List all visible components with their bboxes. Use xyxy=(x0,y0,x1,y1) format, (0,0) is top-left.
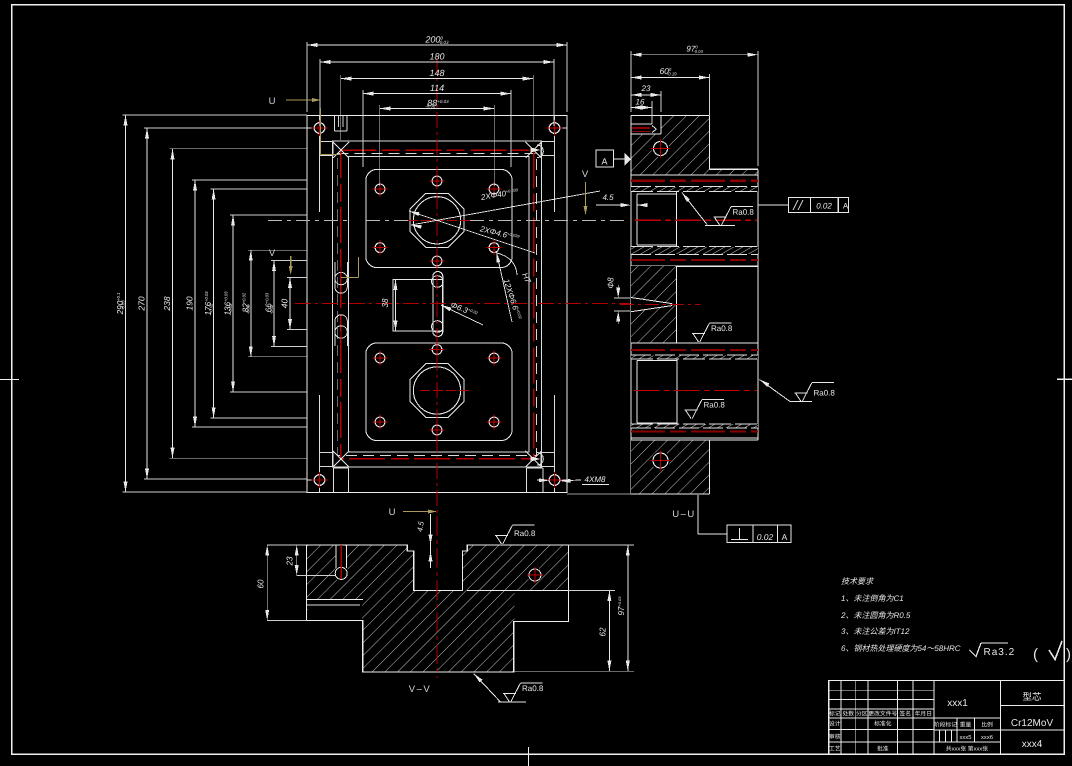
bolt hole 1 xyxy=(375,184,385,194)
svg-text:1、未注倒角为C1: 1、未注倒角为C1 xyxy=(841,594,904,603)
svg-text:标记: 标记 xyxy=(829,709,841,717)
groove corner X top-left xyxy=(333,142,349,158)
svg-text:114: 114 xyxy=(430,83,444,93)
svg-text:A: A xyxy=(843,201,849,210)
perpendicularity tolerance frame xyxy=(697,495,699,534)
svg-text:Ra0.8: Ra0.8 xyxy=(522,684,544,693)
svg-text:重量: 重量 xyxy=(960,720,972,728)
corner boss BR xyxy=(541,453,555,467)
bolt hole 8 xyxy=(489,353,499,363)
left slot upper xyxy=(334,262,336,287)
V-V dim 62 xyxy=(608,591,610,672)
svg-text:U: U xyxy=(269,96,276,107)
cavity 1 red centerline xyxy=(635,219,757,221)
svg-text:V: V xyxy=(269,248,276,259)
svg-text:处数: 处数 xyxy=(842,709,854,717)
top block vertical hole circle xyxy=(652,140,670,158)
section U-U top block hatch xyxy=(631,116,758,176)
V-V right hole circle xyxy=(527,568,542,583)
main view groove inner rect xyxy=(349,157,530,453)
main view plate outline xyxy=(307,116,567,493)
section V-V hatch xyxy=(307,545,569,672)
cavity 1 Ra0.8 leader xyxy=(682,193,690,203)
svg-text:0.02: 0.02 xyxy=(757,532,774,542)
bolt hole 2 xyxy=(489,184,499,194)
groove corner X bottom-right xyxy=(526,451,542,467)
dimension 270 left xyxy=(146,128,148,479)
svg-text:xxx4: xxx4 xyxy=(1022,739,1043,750)
lower octagonal hole xyxy=(410,364,464,418)
section dim 60 xyxy=(631,77,710,79)
cavity 1 outline xyxy=(637,193,676,195)
mid block sprue funnel xyxy=(631,298,672,312)
svg-text:阶段标记: 阶段标记 xyxy=(934,720,957,728)
dimension 38 center square xyxy=(395,280,397,331)
svg-text:238: 238 xyxy=(162,296,172,311)
main view corner column right xyxy=(554,116,556,213)
svg-text:23: 23 xyxy=(641,84,651,93)
right face Ra0.8 leader xyxy=(760,380,770,387)
svg-text:(: ( xyxy=(1033,646,1038,663)
svg-text:技术要求: 技术要求 xyxy=(841,577,874,586)
groove corner X bottom-left xyxy=(333,451,349,467)
svg-text:0.02: 0.02 xyxy=(816,201,832,210)
V-V dim 97 xyxy=(627,545,629,671)
dimension 238 left xyxy=(172,149,174,458)
capsule hole lower xyxy=(432,321,444,333)
svg-text:V–V: V–V xyxy=(409,684,431,695)
svg-text:更改文件号: 更改文件号 xyxy=(868,709,897,717)
svg-text:4.5: 4.5 xyxy=(602,193,614,202)
V-V sprue hole xyxy=(336,546,347,572)
svg-text:U–U: U–U xyxy=(672,509,696,520)
mid block hatch xyxy=(631,266,676,343)
svg-text:38: 38 xyxy=(381,298,390,307)
leader 2X Phi4.6 xyxy=(409,211,535,253)
red band right end hook top xyxy=(537,145,543,158)
top-left notch M8 hole xyxy=(632,116,661,134)
corner hole M8 bottom-left xyxy=(314,475,325,486)
svg-text:A: A xyxy=(782,532,788,542)
upper octagon gray dashed line to section xyxy=(470,219,628,221)
dimension 82 left xyxy=(250,250,252,357)
svg-text:年月日: 年月日 xyxy=(915,709,932,717)
bolt hole 12 xyxy=(432,425,442,435)
dimension 200 top xyxy=(307,44,567,46)
svg-text:A: A xyxy=(601,156,607,166)
dimension 290 left xyxy=(125,115,127,492)
svg-text:190: 190 xyxy=(185,296,195,310)
red band corner arrow BR xyxy=(531,456,541,461)
corner hole M8 bottom-right xyxy=(549,475,560,486)
V-V dim 23 xyxy=(296,545,298,575)
svg-text:Ra0.8: Ra0.8 xyxy=(732,208,754,217)
band A lines xyxy=(631,174,758,176)
upper pocket rounded rectangle xyxy=(366,170,512,268)
groove corner X top-right xyxy=(526,142,542,158)
svg-text:Ra3.2: Ra3.2 xyxy=(983,647,1015,658)
red band right end hook bottom xyxy=(537,453,543,466)
V-V Ra0.8 top xyxy=(495,536,508,545)
svg-text:分区: 分区 xyxy=(856,709,868,717)
title block grid xyxy=(829,681,1064,755)
bottom centering tick xyxy=(528,747,530,766)
section V-V inner lines xyxy=(307,598,363,600)
main horizontal red centerline xyxy=(295,303,631,305)
red band corner arrow TR xyxy=(531,147,541,152)
global Ra3.2 symbol xyxy=(970,643,982,657)
svg-text:U: U xyxy=(389,507,396,518)
lower octagon red centerline xyxy=(420,390,472,392)
dimension 114 top xyxy=(363,93,511,95)
corner boss TL xyxy=(320,142,334,156)
main view groove outer rect xyxy=(333,141,542,467)
svg-text:16: 16 xyxy=(636,97,645,106)
parallelism tolerance frame xyxy=(789,198,849,213)
svg-text:审核: 审核 xyxy=(829,732,841,740)
band D lines xyxy=(631,427,758,429)
section V-V outline xyxy=(307,545,569,672)
svg-text:62: 62 xyxy=(599,627,608,636)
capsule hole upper xyxy=(432,276,444,288)
upper octagonal hole xyxy=(410,193,464,247)
bolt hole 6 xyxy=(432,256,442,266)
mid block red centerline xyxy=(620,304,700,306)
band C Ra0.8 symbol xyxy=(692,334,705,343)
cavity 2 red centerline xyxy=(634,390,757,392)
cavity 2 outline xyxy=(637,360,677,362)
bolt hole 7 xyxy=(375,353,385,363)
bolt hole 11 xyxy=(489,417,499,427)
section V-V void left xyxy=(308,600,363,620)
svg-text:2、未注圆角为R0.5: 2、未注圆角为R0.5 xyxy=(840,611,911,620)
ext line main-to-section bottom xyxy=(567,493,631,495)
svg-text:60: 60 xyxy=(257,579,266,588)
center capsule slot xyxy=(433,272,443,337)
section V-V void right xyxy=(515,591,569,621)
band C dense strip xyxy=(631,355,758,359)
svg-text:3、未注公差为IT12: 3、未注公差为IT12 xyxy=(841,627,910,636)
section dim 23 xyxy=(631,94,661,96)
main view red seal groove band xyxy=(341,150,534,459)
svg-text:设计: 设计 xyxy=(829,719,841,727)
V-V Ra0.8 bottom leader xyxy=(474,674,483,683)
svg-text:xxx6: xxx6 xyxy=(981,735,993,741)
cavity 2 Ra0.8 symbol xyxy=(685,410,698,419)
bottom block hatch xyxy=(631,440,710,494)
section cut line V-V dash xyxy=(268,219,352,221)
mid block outline xyxy=(675,266,677,343)
section dim 16 xyxy=(631,107,652,109)
leader 2X Phi40 xyxy=(411,191,600,225)
svg-text:V: V xyxy=(582,169,589,180)
bolt hole 9 xyxy=(432,345,442,355)
V-V vertical red centerline xyxy=(436,516,438,678)
section U-U top block outline xyxy=(631,115,710,117)
V-V dim 4.5 notch xyxy=(430,514,432,568)
corner boss TR xyxy=(541,142,555,156)
svg-text:23: 23 xyxy=(286,556,295,566)
lower pocket rounded rectangle xyxy=(366,343,512,441)
main view corner column left xyxy=(319,116,321,213)
center square pocket 38 xyxy=(393,280,443,331)
top edge slot xyxy=(334,116,336,132)
svg-text:Ra0.8: Ra0.8 xyxy=(711,324,733,333)
dimension 148 top xyxy=(341,78,533,80)
svg-text:共xxx张 第xxx张: 共xxx张 第xxx张 xyxy=(946,744,988,752)
main view red band white dashed rect xyxy=(338,153,537,455)
svg-text:签名: 签名 xyxy=(899,709,911,717)
svg-text:比例: 比例 xyxy=(981,720,993,728)
band D dense strip xyxy=(631,424,758,428)
svg-text:): ) xyxy=(1066,646,1071,663)
bolt hole 10 xyxy=(375,417,385,427)
dimension 88 top xyxy=(380,108,494,110)
svg-text:Ra0.8: Ra0.8 xyxy=(813,389,835,398)
right centering tick xyxy=(1057,378,1072,380)
corner boss BL xyxy=(320,453,334,467)
left slot lower xyxy=(334,321,336,346)
svg-text:270: 270 xyxy=(137,296,147,311)
left centering tick xyxy=(0,379,19,381)
top extension lines xyxy=(306,42,308,112)
datum A flag xyxy=(625,153,632,166)
dimension 136 left xyxy=(232,215,234,392)
band B lines xyxy=(631,254,758,256)
svg-text:180: 180 xyxy=(429,51,444,61)
main vertical red centerline xyxy=(436,58,438,514)
V-V dim 60 xyxy=(266,545,268,620)
band C lines xyxy=(631,342,758,344)
bottom block hole circle xyxy=(651,451,670,470)
svg-text:xxx5: xxx5 xyxy=(960,735,972,741)
bottom edge slot right xyxy=(526,468,528,493)
leader Phi6.3 xyxy=(441,305,483,325)
bolt hole 4 xyxy=(375,243,385,253)
section dim 97 xyxy=(631,54,758,56)
leader 12X Phi6.6 xyxy=(497,252,513,322)
bottom block outline xyxy=(631,439,758,441)
dimension 66 left xyxy=(273,261,275,347)
svg-text:Ra0.8: Ra0.8 xyxy=(514,529,536,538)
svg-text:6、钢材热处理硬度为54～58HRC: 6、钢材热处理硬度为54～58HRC xyxy=(841,644,961,653)
band B dense strip xyxy=(631,247,758,254)
svg-text:4XM8: 4XM8 xyxy=(585,475,606,484)
section top extension lines xyxy=(630,51,632,112)
bolt hole 3 xyxy=(432,176,442,186)
svg-text:标准化: 标准化 xyxy=(874,719,892,727)
band A dense strip xyxy=(631,187,758,192)
svg-text:40: 40 xyxy=(280,299,290,309)
corner stubs xyxy=(307,127,314,129)
svg-text:Φ8: Φ8 xyxy=(607,277,616,289)
leader 4XM8 xyxy=(560,479,582,482)
corner hole M8 top-left xyxy=(314,123,325,134)
bottom edge slot left xyxy=(332,468,334,493)
bolt hole 5 xyxy=(489,243,499,253)
svg-text:工艺: 工艺 xyxy=(829,744,841,752)
dimension 180 top xyxy=(320,61,554,63)
corner hole M8 top-right xyxy=(549,123,560,134)
dimension 40 left xyxy=(289,278,291,330)
svg-text:148: 148 xyxy=(429,68,444,78)
upper octagon red centerline xyxy=(408,219,470,221)
svg-text:Cr12MoV: Cr12MoV xyxy=(1011,718,1054,729)
dimension 190 left xyxy=(194,180,196,427)
svg-text:型芯: 型芯 xyxy=(1022,691,1042,703)
dimension 176 left xyxy=(213,189,215,418)
svg-text:批准: 批准 xyxy=(877,744,889,752)
svg-text:xxx1: xxx1 xyxy=(947,698,968,709)
svg-text:Ra0.8: Ra0.8 xyxy=(703,401,725,410)
